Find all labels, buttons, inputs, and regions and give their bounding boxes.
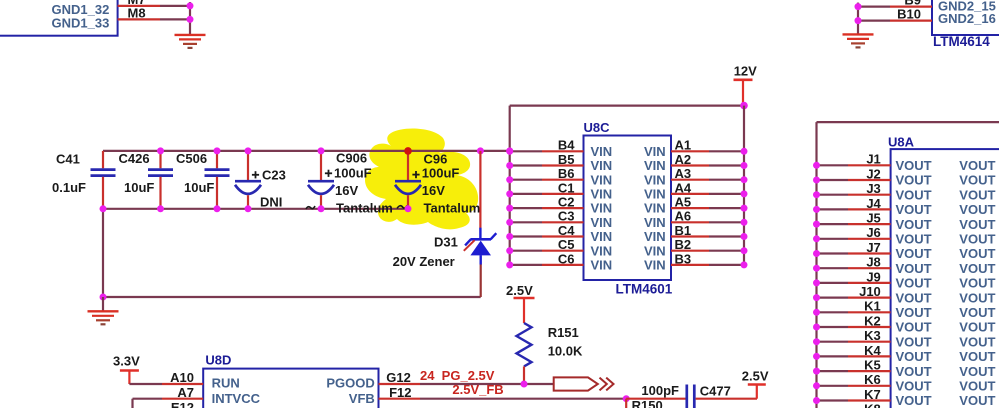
ground stem (lower-left) [102, 297, 104, 311]
svg-text:VOUT: VOUT [896, 173, 932, 188]
svg-text:Tantalum: Tantalum [424, 200, 481, 215]
svg-text:100uF: 100uF [334, 166, 372, 181]
polarized cap top plate [308, 180, 334, 183]
pin stub K3 [848, 341, 891, 343]
wire 12V top rail (caps) [103, 150, 510, 152]
svg-text:DNI: DNI [260, 195, 282, 210]
ground symbol (top-right) [843, 33, 874, 35]
svg-text:VOUT: VOUT [896, 261, 932, 276]
svg-text:VOUT: VOUT [959, 158, 995, 173]
pin stub J3 [848, 194, 891, 196]
zener D31 triangle (anode) [470, 241, 491, 256]
svg-text:VOUT: VOUT [896, 217, 932, 232]
svg-text:VOUT: VOUT [959, 173, 995, 188]
off-page flag PG_2.5V [554, 377, 598, 390]
polarized cap stem top [247, 151, 249, 180]
pin stub C3 [542, 221, 584, 223]
junction dot A1 on right bus [741, 148, 748, 155]
svg-text:B4: B4 [558, 138, 575, 153]
wire zener anode drop [480, 264, 482, 297]
wire left bus to pin C1 [510, 193, 542, 195]
svg-text:C41: C41 [56, 152, 80, 167]
junction dot K4 on bus [813, 353, 820, 360]
polarized cap curved plate [395, 185, 421, 194]
svg-text:VOUT: VOUT [959, 349, 995, 364]
svg-text:VOUT: VOUT [959, 276, 995, 291]
svg-text:VOUT: VOUT [959, 290, 995, 305]
junction dot J5 on bus [813, 221, 820, 228]
polarized cap stem top [407, 151, 409, 180]
svg-text:VOUT: VOUT [896, 276, 932, 291]
pin stub K1 [848, 311, 891, 313]
svg-text:B2: B2 [675, 237, 692, 252]
wire 12V horizontal run [510, 104, 744, 106]
zener D31 cathode stub [479, 228, 481, 240]
pin stub K7 [848, 399, 891, 401]
wire bus to pin K2 [817, 326, 849, 328]
svg-text:J2: J2 [866, 166, 880, 181]
svg-text:VIN: VIN [644, 258, 666, 273]
plus sign C23 [252, 174, 259, 176]
svg-text:VIN: VIN [591, 229, 613, 244]
wire bus to pin K3 [817, 341, 849, 343]
wire pin A5 to right bus [709, 207, 744, 209]
wire bus to pin K6 [817, 385, 849, 387]
svg-text:K8: K8 [864, 402, 881, 408]
pin stub B3 [671, 264, 709, 266]
IC block U8D body (clipped at bottom) [203, 369, 378, 408]
svg-text:K5: K5 [864, 358, 881, 373]
svg-text:VFB: VFB [349, 391, 375, 406]
wire bus to pin J2 [817, 179, 849, 181]
junction dot B6 on left bus [506, 176, 513, 183]
IC block U? (GND1 pins, top-left, clipped) [0, 0, 118, 36]
pin stub B10 [890, 20, 932, 22]
svg-text:A5: A5 [675, 195, 692, 210]
wire 3.3V to RUN [129, 383, 162, 385]
svg-text:B3: B3 [675, 251, 692, 266]
svg-text:C426: C426 [119, 151, 150, 166]
svg-text:100pF: 100pF [641, 383, 679, 398]
pin stub F12 [379, 398, 421, 400]
capacitor C41 plates [91, 168, 116, 171]
svg-text:2.5V_FB: 2.5V_FB [452, 382, 503, 397]
pin stub A4 [671, 193, 709, 195]
svg-text:VOUT: VOUT [896, 364, 932, 379]
svg-text:C4: C4 [558, 223, 575, 238]
svg-text:U8A: U8A [888, 134, 915, 149]
wire VFB to C477/R150 [420, 398, 626, 400]
resistor R150 lead (clipped) [625, 399, 627, 408]
wire bus to pin K5 [817, 370, 849, 372]
svg-text:VOUT: VOUT [959, 364, 995, 379]
junction dot B4 on left bus [506, 148, 513, 155]
svg-text:PGOOD: PGOOD [326, 376, 374, 391]
svg-text:J6: J6 [866, 225, 880, 240]
wire bus to pin J10 [817, 297, 849, 299]
pin stub A5 [671, 207, 709, 209]
svg-text:VOUT: VOUT [959, 334, 995, 349]
power bar 12V [734, 79, 753, 82]
capacitor C426 plates [148, 168, 173, 171]
wire pin A3 to right bus [709, 179, 744, 181]
pin stub J5 [848, 223, 891, 225]
junction dot C3 on left bus [506, 219, 513, 226]
svg-text:VOUT: VOUT [896, 187, 932, 202]
junction dot J1 on bus [813, 162, 820, 169]
svg-text:VIN: VIN [591, 144, 613, 159]
svg-text:J3: J3 [866, 181, 880, 196]
wire ground bottom rail (caps) [103, 208, 408, 210]
svg-text:LTM4614: LTM4614 [933, 34, 990, 49]
junction dot A3 on right bus [741, 176, 748, 183]
svg-text:0.1uF: 0.1uF [52, 180, 86, 195]
pin stub G12 [379, 383, 421, 385]
svg-text:VIN: VIN [644, 187, 666, 202]
capacitor C506 stem bottom [216, 177, 218, 209]
svg-text:VOUT: VOUT [896, 393, 932, 408]
junction dot A6 on right bus [741, 219, 748, 226]
svg-text:VOUT: VOUT [959, 305, 995, 320]
wire bus to pin K4 [817, 355, 849, 357]
capacitor C426 stem bottom [159, 177, 161, 209]
pin stub C2 [542, 207, 584, 209]
wire bus to pin J5 [817, 223, 849, 225]
wire pin B2 to right bus [709, 250, 744, 252]
wire B10 to junction [857, 20, 890, 22]
svg-text:A6: A6 [675, 209, 692, 224]
svg-text:VOUT: VOUT [959, 217, 995, 232]
svg-text:J5: J5 [866, 211, 880, 226]
junction dots on 12V rail [157, 147, 164, 154]
junction dot C4 on left bus [506, 233, 513, 240]
junction dot B5 on left bus [506, 162, 513, 169]
pin stub B1 [671, 235, 709, 237]
svg-text:F12: F12 [389, 385, 411, 400]
IC block U8A body (clipped right/bottom) [891, 149, 999, 408]
svg-text:B10: B10 [897, 7, 921, 22]
wire left bus to pin B5 [510, 164, 542, 166]
wire PGOOD to off-page flag [420, 383, 554, 385]
svg-text:C477: C477 [700, 384, 731, 399]
pin stub K4 [848, 355, 891, 357]
wire 12V rail to D31 cathode [479, 151, 481, 228]
wire left bus to pin C4 [510, 235, 542, 237]
junction dot C5 on left bus [506, 247, 513, 254]
wire bus to pin J7 [817, 252, 849, 254]
junction dot A4 on right bus [741, 190, 748, 197]
junction dots on ground rail [100, 205, 107, 212]
ground symbol (top-left) [175, 34, 206, 36]
svg-text:VOUT: VOUT [959, 393, 995, 408]
svg-text:C906: C906 [336, 151, 367, 166]
polarized cap stem bottom [320, 195, 322, 209]
pin stub J10 [848, 297, 891, 299]
svg-text:VOUT: VOUT [959, 246, 995, 261]
svg-text:16V: 16V [422, 183, 445, 198]
pin stub A1 [671, 150, 709, 152]
red slash mark on D31 [464, 240, 475, 251]
svg-text:VIN: VIN [591, 243, 613, 258]
pin stub K5 [848, 370, 891, 372]
junction dot J7 on bus [813, 250, 820, 257]
junction dot J4 on bus [813, 206, 820, 213]
power bar 3.3V [120, 369, 139, 372]
wire 3.3V stem [128, 371, 130, 385]
pin stub K2 [848, 326, 891, 328]
svg-text:VOUT: VOUT [959, 261, 995, 276]
svg-text:A4: A4 [675, 180, 692, 195]
pin stub M7 [118, 5, 160, 7]
wire VOUT left bus drop (U8A) [815, 122, 817, 408]
wire bus to pin K7 [817, 399, 849, 401]
wire left VIN bus drop [509, 106, 511, 266]
svg-text:K1: K1 [864, 299, 881, 314]
junction dot J3 on bus [813, 191, 820, 198]
svg-text:J1: J1 [866, 152, 880, 167]
wire to C477 left plate [626, 398, 685, 400]
wire left bus to pin C5 [510, 250, 542, 252]
power bar 2.5V (at R151) [514, 297, 535, 300]
svg-text:VIN: VIN [591, 258, 613, 273]
svg-text:VIN: VIN [644, 229, 666, 244]
svg-text:C5: C5 [558, 237, 575, 252]
chevron 1 of off-page flag [600, 378, 607, 391]
zener D31 cathode bar [470, 238, 491, 241]
junction dot C96 top (red, selected) [404, 147, 412, 155]
svg-text:C6: C6 [558, 251, 575, 266]
svg-text:VIN: VIN [644, 158, 666, 173]
polarized cap curved plate [308, 185, 334, 194]
power bar 2.5V (right) [748, 383, 766, 386]
junction dot J9 on bus [813, 279, 820, 286]
pin stub K6 [848, 385, 891, 387]
junction dot K2 on bus [813, 324, 820, 331]
junction dot A2 on right bus [741, 162, 748, 169]
svg-text:C23: C23 [262, 168, 286, 183]
pin stub J2 [848, 179, 891, 181]
wire left bus to pin B6 [510, 179, 542, 181]
svg-text:10uF: 10uF [124, 180, 154, 195]
wire bus to pin K1 [817, 311, 849, 313]
polarized cap stem top [320, 151, 322, 180]
svg-text:C506: C506 [176, 151, 207, 166]
plus sign C96 [412, 174, 419, 176]
svg-text:VOUT: VOUT [959, 232, 995, 247]
wire pin A4 to right bus [709, 193, 744, 195]
wire 2.5V stem to R151 [523, 298, 525, 323]
pin stub J1 [848, 164, 891, 166]
pin stub A6 [671, 221, 709, 223]
wire bus to pin J1 [817, 164, 849, 166]
svg-text:K6: K6 [864, 372, 881, 387]
wire 2.5V stem (right) [756, 385, 758, 399]
highlight marker blob over C96 [365, 129, 478, 230]
svg-text:C3: C3 [558, 209, 575, 224]
junction dot K1 on bus [813, 309, 820, 316]
junction dot K5 on bus [813, 368, 820, 375]
svg-text:VOUT: VOUT [896, 202, 932, 217]
zener D31 bar bend right [491, 233, 497, 239]
chevron 2 of off-page flag [606, 378, 613, 391]
capacitor C506 stem top [216, 151, 218, 168]
pin stub J8 [848, 267, 891, 269]
svg-text:K7: K7 [864, 387, 881, 402]
svg-text:A10: A10 [170, 370, 194, 385]
pin stub J7 [848, 252, 891, 254]
wire vertical to ground (top-right) [857, 3, 859, 35]
svg-text:VIN: VIN [591, 215, 613, 230]
pin stub C6 [542, 264, 584, 266]
svg-text:VOUT: VOUT [896, 232, 932, 247]
wire bus to pin J4 [817, 208, 849, 210]
svg-text:J10: J10 [859, 284, 881, 299]
svg-text:INTVCC: INTVCC [212, 391, 261, 406]
wire left bus to pin C3 [510, 221, 542, 223]
svg-text:J9: J9 [866, 269, 880, 284]
svg-text:VIN: VIN [644, 215, 666, 230]
wire B9 to junction [857, 5, 890, 7]
wire bus to pin J3 [817, 194, 849, 196]
svg-text:A1: A1 [675, 138, 692, 153]
pin stub C5 [542, 250, 584, 252]
wire INTVCC net vertical (clipped) [131, 399, 133, 408]
wire bus to pin J8 [817, 267, 849, 269]
svg-text:2.5V: 2.5V [506, 283, 533, 298]
svg-text:U8D: U8D [205, 352, 231, 367]
svg-text:VOUT: VOUT [896, 305, 932, 320]
polarized cap curved plate [235, 185, 261, 194]
junction dot ground corner [100, 294, 107, 301]
svg-text:B1: B1 [675, 223, 692, 238]
junction dot B9 net [855, 3, 862, 10]
IC block LTM4614 (top-right, clipped) [932, 0, 999, 35]
pin stub C1 [542, 193, 584, 195]
svg-text:VIN: VIN [591, 172, 613, 187]
pin stub A2 [671, 164, 709, 166]
wire bus to pin J9 [817, 282, 849, 284]
pin stub B2 [671, 250, 709, 252]
wire M8 to junction [160, 18, 191, 20]
svg-text:A3: A3 [675, 166, 692, 181]
junction dot M8 net [187, 16, 194, 23]
op-amp module U8C body (LTM4601) [584, 136, 672, 281]
junction dot J6 on bus [813, 235, 820, 242]
svg-text:A7: A7 [177, 385, 194, 400]
junction dot K3 on bus [813, 338, 820, 345]
svg-text:VOUT: VOUT [896, 290, 932, 305]
pin stub J9 [848, 282, 891, 284]
junction dot B1 on right bus [741, 233, 748, 240]
polarized cap top plate [235, 180, 261, 183]
zener D31 bar bend left [465, 239, 471, 245]
svg-text:GND2_16: GND2_16 [938, 11, 996, 26]
wire VOUT feeder horizontal (top of U8A) [817, 121, 999, 123]
wire bus to pin J6 [817, 238, 849, 240]
svg-text:RUN: RUN [212, 376, 240, 391]
junction dot at 12V feed [740, 102, 748, 110]
junction dot B3 on right bus [741, 261, 748, 268]
wire left bus to pin C6 [510, 264, 542, 266]
svg-text:VIN: VIN [644, 172, 666, 187]
svg-text:10uF: 10uF [184, 180, 214, 195]
junction dot R150 tap [623, 395, 630, 402]
svg-text:VOUT: VOUT [959, 320, 995, 335]
svg-text:C1: C1 [558, 180, 575, 195]
svg-text:B5: B5 [558, 152, 575, 167]
svg-text:D31: D31 [434, 235, 458, 250]
svg-text:10.0K: 10.0K [548, 344, 583, 359]
svg-text:VIN: VIN [591, 158, 613, 173]
svg-text:VIN: VIN [591, 187, 613, 202]
svg-text:VIN: VIN [644, 243, 666, 258]
svg-text:J7: J7 [866, 240, 880, 255]
capacitor C506 plates [205, 168, 230, 171]
polarized cap stem bottom [407, 195, 409, 209]
pin stub B4 [542, 150, 584, 152]
junction dot J10 on bus [813, 294, 820, 301]
svg-text:GND1_33: GND1_33 [52, 15, 110, 30]
wire ground return run [103, 296, 481, 298]
svg-text:VOUT: VOUT [896, 246, 932, 261]
svg-text:VOUT: VOUT [896, 320, 932, 335]
wire right VIN bus drop [743, 106, 745, 265]
pin stub B9 [890, 5, 932, 7]
svg-text:K2: K2 [864, 313, 881, 328]
svg-text:12V: 12V [734, 64, 757, 79]
svg-text:K4: K4 [864, 343, 881, 358]
pin stub J4 [848, 208, 891, 210]
svg-text:VOUT: VOUT [896, 158, 932, 173]
junction dot A5 on right bus [741, 205, 748, 212]
pin stub C4 [542, 235, 584, 237]
wire left bus to pin B4 [510, 150, 542, 152]
junction dot R151/PGOOD [521, 381, 528, 388]
junction dot C2 on left bus [506, 205, 513, 212]
wire C477 right plate to 2.5V [696, 398, 757, 400]
svg-text:C96: C96 [424, 151, 448, 166]
wire 12V stem [742, 80, 744, 106]
junction dot K7 on bus [813, 397, 820, 404]
svg-text:C2: C2 [558, 195, 575, 210]
svg-text:VIN: VIN [644, 201, 666, 216]
wire pin A1 to right bus [709, 150, 744, 152]
plus sign C906 [325, 172, 332, 174]
svg-text:E12: E12 [171, 400, 194, 408]
wire R151 bottom lead [523, 366, 525, 384]
capacitor C41 stem bottom [102, 177, 104, 209]
svg-text:3.3V: 3.3V [113, 353, 140, 368]
pin stub M8 [118, 18, 160, 20]
junction dot C6 on left bus [506, 261, 513, 268]
pin stub J6 [848, 238, 891, 240]
capacitor C426 stem top [159, 151, 161, 168]
junction dot B10 net [855, 17, 862, 24]
svg-text:LTM4601: LTM4601 [616, 282, 673, 297]
pin stub B6 [542, 179, 584, 181]
junction dot C1 on left bus [506, 190, 513, 197]
svg-text:U8C: U8C [584, 120, 611, 135]
svg-text:J4: J4 [866, 196, 881, 211]
svg-text:20V Zener: 20V Zener [393, 254, 455, 269]
junction dot K6 on bus [813, 382, 820, 389]
zener D31 anode stub [480, 255, 482, 264]
capacitor C477 plates [685, 385, 688, 408]
svg-text:A2: A2 [675, 152, 692, 167]
svg-text:VOUT: VOUT [896, 379, 932, 394]
squiggle mark near C906 bottom [306, 206, 315, 209]
pin stub A3 [671, 179, 709, 181]
